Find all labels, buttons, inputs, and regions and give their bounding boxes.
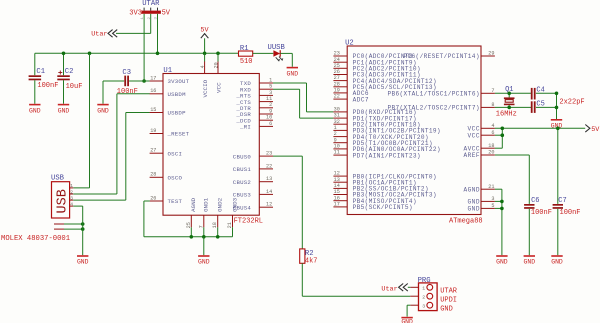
wire Utar label to PRG pin1 <box>408 286 411 288</box>
pin 16 USBDM (U1) <box>150 88 186 98</box>
label 2x22pF <box>559 99 584 107</box>
svg-text:100nF: 100nF <box>531 209 552 217</box>
svg-text:16: 16 <box>334 195 340 201</box>
svg-text:C5: C5 <box>536 101 544 109</box>
svg-text:C2: C2 <box>65 68 74 76</box>
wire R2 to PRG pin2 <box>302 263 410 296</box>
svg-text:100nF: 100nF <box>117 88 138 96</box>
junction VCC6 <box>501 133 505 137</box>
svg-text:6: 6 <box>491 130 494 136</box>
svg-text:VCCIO: VCCIO <box>202 79 209 97</box>
svg-text:28: 28 <box>150 172 156 178</box>
op-amp U2 ATmega88 body <box>345 40 483 226</box>
svg-text:UTAR: UTAR <box>142 0 160 8</box>
capacitor C7 <box>553 197 581 255</box>
svg-text:CBUS1: CBUS1 <box>233 166 252 173</box>
svg-text:8: 8 <box>491 102 494 108</box>
svg-text:4k7: 4k7 <box>305 257 318 265</box>
svg-text:GND: GND <box>440 305 453 313</box>
svg-text:_RESET: _RESET <box>167 131 190 138</box>
svg-text:UUSB: UUSB <box>268 44 286 52</box>
ground C7 <box>551 255 563 266</box>
junction C4 gnd <box>555 92 559 96</box>
capacitor C5 <box>531 101 545 113</box>
connector UTAR 3-pin header <box>142 0 161 14</box>
wire XTAL1 net <box>495 92 557 94</box>
pin 25 PC2(ADC2/PCINT10) (U2) <box>333 63 420 73</box>
svg-text:AGND: AGND <box>464 186 480 193</box>
svg-text:13: 13 <box>334 177 340 183</box>
svg-text:3V3OUT: 3V3OUT <box>168 78 190 85</box>
pin 31 PD1(TXD/PCINT17) (U2) <box>333 113 416 123</box>
pin 11 _CTS (U1) <box>235 96 273 106</box>
junction shield 1 <box>81 222 85 226</box>
pin 4 VCCIO (U1) <box>200 61 209 97</box>
pin 15 USBDP (U1) <box>150 107 186 117</box>
pin 13 CBUS2 (U1) <box>233 176 273 186</box>
svg-text:USBDM: USBDM <box>168 91 187 98</box>
svg-text:5: 5 <box>491 203 494 209</box>
svg-text:CBUS0: CBUS0 <box>233 153 252 160</box>
svg-text:GND: GND <box>198 259 210 266</box>
svg-text:10: 10 <box>334 144 340 150</box>
pin 12 CBUS4 (U1) <box>233 202 273 212</box>
capacitor C4 <box>531 87 545 100</box>
pin 10 PD6(AIN0/OC0A/PCINT22) (U2) <box>333 144 440 154</box>
svg-text:100nF: 100nF <box>560 209 581 217</box>
svg-text:VCC: VCC <box>468 132 480 139</box>
svg-text:14: 14 <box>334 183 340 189</box>
svg-text:14: 14 <box>266 189 272 195</box>
svg-text:15: 15 <box>334 189 340 195</box>
wire USB pin4 to ground <box>73 206 82 255</box>
ground C1 <box>29 104 41 115</box>
svg-text:3: 3 <box>491 196 494 202</box>
pin 25 AGND (U1) <box>186 197 197 228</box>
svg-text:_RI: _RI <box>239 124 251 131</box>
svg-text:510: 510 <box>240 58 253 66</box>
pin 22 CBUS1 (U1) <box>233 163 273 173</box>
svg-text:C7: C7 <box>558 197 566 205</box>
svg-text:16: 16 <box>150 88 156 94</box>
svg-text:3: 3 <box>422 303 425 309</box>
svg-text:C4: C4 <box>536 87 544 95</box>
svg-text:27: 27 <box>150 148 156 154</box>
svg-text:9: 9 <box>269 108 272 114</box>
svg-text:15: 15 <box>150 107 156 113</box>
svg-text:22: 22 <box>334 94 340 100</box>
pin 1 PD3(INT1/OC2B/PCINT19) (U2) <box>333 125 440 135</box>
pin 20 VCC (U1) <box>213 61 222 93</box>
svg-text:PD7(AIN1/PCINT23): PD7(AIN1/PCINT23) <box>353 152 421 159</box>
wire UTAR pin3 to 5V bus <box>157 14 159 54</box>
pin 19 ADC6 (U2) <box>333 88 369 98</box>
svg-text:Utar: Utar <box>381 286 397 294</box>
svg-text:Utar: Utar <box>91 30 107 38</box>
svg-text:CBUS3: CBUS3 <box>233 192 252 199</box>
svg-text:PB6(XTAL1/TOSC1/PCINT6): PB6(XTAL1/TOSC1/PCINT6) <box>388 91 480 98</box>
ground crystal <box>551 119 563 130</box>
svg-text:24: 24 <box>334 57 340 63</box>
pin number 1 (UTAR) <box>141 17 145 20</box>
wire AREF to C6 <box>495 155 529 204</box>
pin 8 PB7(XTAL2/TOSC2/PCINT7) (U2) <box>388 102 495 112</box>
svg-text:USB: USB <box>55 189 70 213</box>
pin 26 PC3(ADC3/PCINT11) (U2) <box>333 69 420 79</box>
svg-text:7: 7 <box>491 88 494 94</box>
pin 12 PB0(ICP1/CLKO/PCINT0) (U2) <box>333 171 436 181</box>
pin 28 OSCO (U1) <box>150 172 183 182</box>
wire VCC to C7 <box>557 128 559 204</box>
ground C3 <box>97 104 109 115</box>
svg-text:27: 27 <box>334 75 340 81</box>
pin 26 TEST (U1) <box>150 195 183 205</box>
svg-text:1: 1 <box>334 125 337 131</box>
junction shield 2 <box>81 227 85 231</box>
svg-text:32: 32 <box>334 119 340 125</box>
pin 23 CBUS0 (U1) <box>233 151 273 161</box>
ground USB <box>77 255 89 266</box>
junction 3V3 net <box>142 79 146 83</box>
wire LED cathode to ground <box>280 53 292 66</box>
pin 6 _RI (U1) <box>239 121 273 131</box>
connector USB (MOLEX) <box>51 174 73 229</box>
label Utar (PRG) <box>381 284 407 294</box>
label Utar (top) <box>91 30 117 39</box>
svg-text:2: 2 <box>269 102 272 108</box>
capacitor C2 (polarized) <box>57 53 82 104</box>
svg-text:4: 4 <box>70 201 73 207</box>
svg-text:PRG: PRG <box>418 277 431 285</box>
svg-text:12: 12 <box>266 202 272 208</box>
resistor R1 <box>239 45 274 66</box>
pin number 3 (UTAR) <box>155 17 159 20</box>
svg-text:GND3: GND3 <box>231 197 238 212</box>
pin 14 PB2(SS/OC1B/PCINT2) (U2) <box>333 183 428 193</box>
pin 20 AREF (U2) <box>464 150 495 160</box>
pin 22 ADC7 (U2) <box>333 94 369 104</box>
pin 18 AVCC (U2) <box>464 143 495 153</box>
wire XTAL2 net <box>495 106 557 108</box>
wire PRG pin3 to ground <box>407 305 410 316</box>
svg-text:OSCI: OSCI <box>168 150 182 157</box>
svg-text:17: 17 <box>334 202 340 208</box>
ground PRG <box>401 317 413 323</box>
svg-text:5: 5 <box>269 84 272 90</box>
svg-text:11: 11 <box>334 150 340 156</box>
svg-text:GND: GND <box>29 107 41 114</box>
wire UTAR pin1 to 3V3 net <box>143 14 145 81</box>
pin 16 PB4(MISO/PCINT4) (U2) <box>333 195 416 205</box>
svg-text:OSCO: OSCO <box>168 175 183 182</box>
wire UTAR pin2 to Utar label <box>116 14 151 34</box>
pin 2 PD4(T0/XCK/PCINT20) (U2) <box>333 131 428 141</box>
wire VCC net <box>495 127 585 129</box>
pin 4 VCC (U2) <box>468 123 495 133</box>
pin 21 AGND (U2) <box>464 184 495 194</box>
svg-text:U1: U1 <box>163 67 172 75</box>
wire VCCIO to 5V bus <box>204 53 206 61</box>
junction AGND rail <box>190 235 194 239</box>
pin 17 PB5(SCK/PCINT5) (U2) <box>333 202 412 212</box>
svg-text:21: 21 <box>488 184 494 190</box>
svg-text:23: 23 <box>334 51 340 57</box>
wire RXD net <box>273 89 333 118</box>
svg-text:23: 23 <box>266 151 272 157</box>
svg-text:FT232RL: FT232RL <box>234 217 263 225</box>
svg-text:1: 1 <box>70 183 73 189</box>
svg-text:28: 28 <box>334 81 340 87</box>
pin 18 GND2 (U1) <box>212 197 223 228</box>
wire 5V bus <box>35 52 239 54</box>
wire rail to ground symbol <box>203 237 205 255</box>
svg-text:29: 29 <box>488 51 494 57</box>
LED UUSB <box>268 44 286 61</box>
svg-text:5V: 5V <box>200 27 209 35</box>
wire USB shield pins <box>64 224 83 229</box>
junction GND2 rail <box>216 235 220 239</box>
svg-text:4: 4 <box>491 123 494 129</box>
svg-text:26: 26 <box>150 195 156 201</box>
svg-text:GND1: GND1 <box>203 197 210 212</box>
svg-text:19: 19 <box>334 88 340 94</box>
capacitor C1 <box>29 53 59 104</box>
label UPDI (PRG pin2) <box>440 296 457 304</box>
svg-text:AGND: AGND <box>190 197 197 212</box>
pin 23 PC0(ADC0/PCINT8 (U2) <box>333 51 413 61</box>
svg-text:25: 25 <box>334 63 340 69</box>
wire U1 ground rail <box>144 227 233 237</box>
pin 6 VCC (U2) <box>468 130 495 140</box>
svg-text:1: 1 <box>269 77 272 83</box>
pin 32 PD2(INT0/PCINT18) (U2) <box>333 119 420 129</box>
svg-text:3: 3 <box>70 195 73 201</box>
svg-text:3V3: 3V3 <box>129 10 142 18</box>
svg-text:GND: GND <box>287 70 299 77</box>
ground AGND <box>496 255 508 266</box>
svg-text:R1: R1 <box>240 45 249 53</box>
svg-text:4: 4 <box>200 65 206 68</box>
connector PRG header <box>410 277 437 311</box>
svg-text:VCC: VCC <box>215 82 222 93</box>
pin 27 OSCI (U1) <box>150 148 182 158</box>
svg-text:100nF: 100nF <box>37 82 58 90</box>
wire USBDM net <box>73 94 150 194</box>
pin 13 PB1(OC1A/PCINT1) (U2) <box>333 177 416 187</box>
svg-text:5V: 5V <box>591 126 600 134</box>
svg-text:AREF: AREF <box>464 152 480 159</box>
svg-text:PB5(SCK/PCINT5): PB5(SCK/PCINT5) <box>353 204 413 211</box>
svg-text:USBDP: USBDP <box>168 110 187 117</box>
junction GND1 rail <box>202 235 206 239</box>
pin 9 PD5(T1/OC0B/PCINT21) (U2) <box>333 137 432 147</box>
wire VCC to 5V bus <box>217 53 219 61</box>
wire CBUS0 to R2 <box>273 156 302 249</box>
junction Q1 top <box>507 92 511 96</box>
svg-text:31: 31 <box>334 113 340 119</box>
svg-text:GND: GND <box>97 107 109 114</box>
pin 10 _DCD (U1) <box>235 115 273 125</box>
crystal Q1 <box>496 86 517 118</box>
junction C2-bus <box>62 52 66 56</box>
wire TXD net <box>273 83 333 112</box>
ground C2 <box>58 104 70 115</box>
pin 15 PB3(MOSI/OC2A/PCINT3) (U2) <box>333 189 436 199</box>
svg-text:UPDI: UPDI <box>440 296 457 304</box>
svg-text:MOLEX 48037-0001: MOLEX 48037-0001 <box>1 235 70 243</box>
junction Q1 bottom <box>507 106 511 110</box>
op-amp U1 FT232RL body <box>163 67 263 225</box>
svg-text:C3: C3 <box>122 69 131 77</box>
svg-text:GND: GND <box>58 107 70 114</box>
label GND (PRG pin3) <box>440 305 453 313</box>
svg-text:19: 19 <box>150 128 156 134</box>
wire USBDP net <box>73 113 150 201</box>
supply 5V (right) <box>585 125 600 134</box>
svg-text:6: 6 <box>269 121 272 127</box>
pin 11 PD7(AIN1/PCINT23) (U2) <box>333 150 420 160</box>
svg-text:ADC7: ADC7 <box>353 96 369 103</box>
pin 27 PC4(ADC4/SDA/PCINT12) (U2) <box>333 75 436 85</box>
svg-text:1: 1 <box>422 286 425 292</box>
svg-text:16MHz: 16MHz <box>496 110 517 118</box>
svg-text:GND: GND <box>77 259 89 266</box>
svg-text:13: 13 <box>266 176 272 182</box>
svg-text:ATmega88: ATmega88 <box>449 217 483 225</box>
label UTAR (PRG pin1) <box>440 287 458 295</box>
junction GND5 <box>500 207 504 211</box>
svg-text:9: 9 <box>334 137 337 143</box>
pin 7 PB6(XTAL1/TOSC1/PCINT6) (U2) <box>388 88 495 98</box>
junction C5 gnd <box>555 106 559 110</box>
svg-text:GND: GND <box>468 199 480 206</box>
svg-text:2: 2 <box>334 131 337 137</box>
svg-text:GND2: GND2 <box>217 197 224 212</box>
svg-text:2: 2 <box>422 294 425 300</box>
svg-text:GND: GND <box>551 259 563 266</box>
junction VCC4 <box>501 127 505 131</box>
wire crystal caps to ground <box>556 93 558 119</box>
junction VBUS <box>88 52 92 56</box>
wire VBUS to USB pin1 <box>73 53 89 188</box>
capacitor C3 <box>103 69 150 96</box>
label 5V (header) <box>162 10 171 18</box>
svg-text:11: 11 <box>266 96 272 102</box>
svg-text:10uF: 10uF <box>66 83 83 91</box>
svg-text:30: 30 <box>334 107 340 113</box>
pin 21 GND3 (U1) <box>227 197 238 228</box>
pin 19 _RESET (U1) <box>150 128 190 138</box>
svg-text:C6: C6 <box>531 197 539 205</box>
pin 7 GND1 (U1) <box>198 197 209 228</box>
junction UTAR-5V <box>156 52 160 56</box>
pin 30 PD0(RXD/PCINT16) (U2) <box>333 107 416 117</box>
wire VCC pin6 <box>495 128 502 148</box>
svg-text:CBUS2: CBUS2 <box>233 179 252 186</box>
svg-text:PC6(/RESET/PCINT14): PC6(/RESET/PCINT14) <box>404 53 480 60</box>
svg-text:TEST: TEST <box>168 198 183 205</box>
svg-text:2: 2 <box>70 189 73 195</box>
svg-text:3: 3 <box>269 90 272 96</box>
svg-text:GND: GND <box>496 259 508 266</box>
ground U1 <box>198 255 210 266</box>
svg-text:GND: GND <box>468 206 480 213</box>
svg-text:20: 20 <box>488 150 494 156</box>
svg-text:20: 20 <box>213 62 219 68</box>
ground C6 <box>524 255 536 266</box>
svg-text:GND: GND <box>524 259 536 266</box>
svg-text:18: 18 <box>488 143 494 149</box>
pin 2 _DTR (U1) <box>235 102 273 112</box>
ground LED <box>287 67 299 78</box>
svg-text:2x22pF: 2x22pF <box>559 99 584 107</box>
svg-text:PB7(XTAL2/TOSC2/PCINT7): PB7(XTAL2/TOSC2/PCINT7) <box>388 105 480 112</box>
junction C7-VCC <box>556 127 560 131</box>
pin 3 GND (U2) <box>468 196 495 206</box>
capacitor C6 <box>524 197 552 255</box>
svg-text:USB: USB <box>51 174 65 182</box>
pin 5 GND (U2) <box>468 203 495 213</box>
junction 5V-VCC <box>216 52 220 56</box>
svg-text:22: 22 <box>266 163 272 169</box>
pin 1 TXD (U1) <box>240 77 273 87</box>
wire TEST to ground rail <box>144 201 150 237</box>
svg-text:GND: GND <box>401 319 413 323</box>
pin 17 3V3OUT (U1) <box>150 75 190 85</box>
pin 5 RXD (U1) <box>240 84 273 94</box>
pin 3 _RTS (U1) <box>235 90 273 100</box>
supply 5V (top) <box>200 27 209 54</box>
wire C3 to ground <box>102 81 104 104</box>
svg-text:12: 12 <box>334 171 340 177</box>
wire AGND net <box>495 189 502 255</box>
junction 5V-VCCIO <box>203 52 207 56</box>
svg-text:C1: C1 <box>36 68 45 76</box>
svg-text:10: 10 <box>266 115 272 121</box>
pin 9 _DSR (U1) <box>235 108 273 118</box>
svg-text:17: 17 <box>150 75 156 81</box>
pin number 2 (UTAR) <box>148 17 152 20</box>
label 3V3 <box>129 10 142 18</box>
pin 28 PC5(ADC5/SCL/PCINT13) (U2) <box>333 81 436 91</box>
pin 29 PC6(/RESET/PCINT14) (U2) <box>404 51 495 61</box>
svg-text:26: 26 <box>334 69 340 75</box>
pin 24 PC1(ADC1/PCINT9) (U2) <box>333 57 416 67</box>
pin 14 CBUS3 (U1) <box>233 189 273 199</box>
svg-text:U2: U2 <box>345 40 354 48</box>
svg-text:UTAR: UTAR <box>440 287 458 295</box>
label MOLEX 48037-0001 <box>1 235 70 243</box>
resistor R2 <box>300 249 318 266</box>
svg-text:5V: 5V <box>162 10 171 18</box>
junction GND3 <box>500 200 504 204</box>
